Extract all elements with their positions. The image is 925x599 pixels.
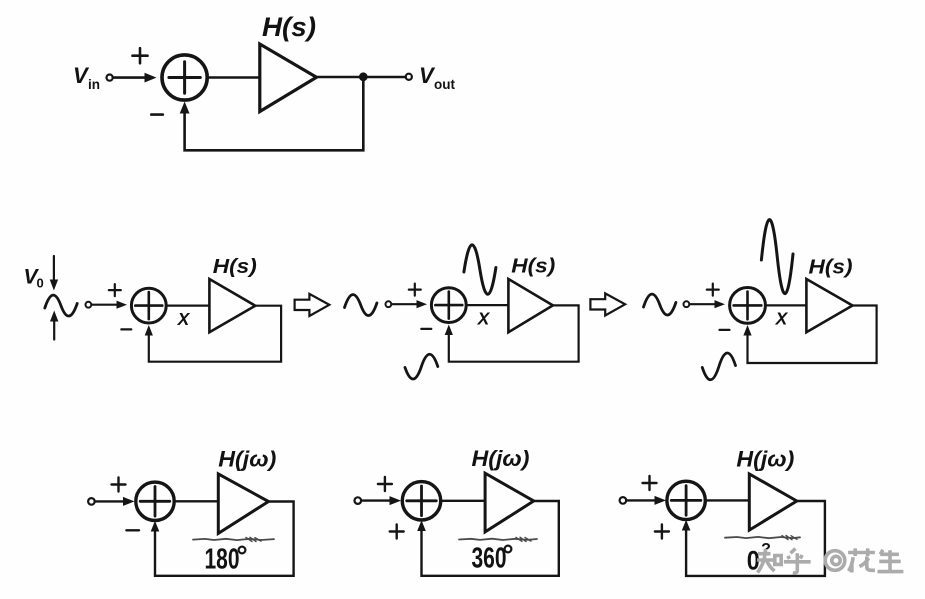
plus sign (C) [707,284,719,296]
plus sign (A) [109,284,121,296]
input terminal (B) [386,301,392,307]
minus sign (C) [720,329,730,331]
watermark glyph hua [848,548,875,572]
svg-text:X: X [775,309,789,329]
input sine wave (C) [644,294,676,315]
wire input arrow (F) [626,499,655,501]
svg-text:360: 360 [472,543,507,575]
wire amplifier output (top) [317,76,406,79]
wire input arrow (E) [361,499,390,501]
plus sign upper (F) [643,476,657,490]
amplitude arrow down (A) [53,256,55,281]
minus sign (A) [121,328,131,330]
svg-text:H(s): H(s) [809,257,853,279]
watermark glyph zhi [757,549,774,573]
svg-text:H(jω): H(jω) [736,447,794,472]
wire feedback loop (A) [149,306,281,362]
amplifier triangle (F) [749,474,797,530]
watermark smudge line (E) [459,539,537,540]
plus sign upper (E) [378,477,392,491]
input sine wave (A) [45,295,77,316]
wire input arrow (D) [95,500,124,502]
minus sign (B) [421,328,431,330]
minus sign at feedback input (top) [151,113,163,116]
wire summing to amplifier (A) [166,305,209,307]
arrowhead feedback into summing (E) [417,520,426,531]
arrowhead feedback into summing (top) [180,102,190,114]
plus sign lower (F) [655,525,669,539]
growing sine wave above (B) [464,245,496,294]
input terminal (A) [86,302,92,308]
wire input arrow (C) [690,303,716,305]
plus sign (B) [409,284,421,296]
wire summing to amplifier (C) [765,304,806,306]
plus sign (D) [112,478,126,492]
watermark zhihu text (gray strokes) [757,548,903,573]
label V0 [24,266,44,291]
plus sign lower (E) [390,525,404,539]
wire feedback loop (C) [748,306,877,364]
arrowhead feedback into summing (B) [445,325,453,336]
hollow arrow 1 (between A and B) [295,294,330,316]
wire summing to amplifier (B) [466,304,508,306]
plus sign at summing input (top) [133,48,148,63]
svg-text:X: X [477,309,491,329]
wire feedback loop (F) [686,501,825,576]
arrowhead feedback into summing (F) [682,520,691,531]
wire input arrow (A) [92,304,118,306]
wire summing to amplifier (D) [174,500,218,502]
summing junction S4 (C) [730,288,766,324]
label Vin [73,63,100,92]
wire summing to amplifier (top) [207,76,259,79]
input terminal (top) [107,75,113,81]
output terminal (top) [406,74,412,80]
summing junction S1 (top) [162,55,207,100]
svg-text:H(s): H(s) [262,12,316,42]
svg-text:H(jω): H(jω) [472,446,530,471]
hollow arrow 2 (between B and C) [590,293,625,315]
input sine wave (B) [345,295,377,316]
amplifier triangle (C) [806,279,852,332]
svg-text:H(s): H(s) [511,256,555,278]
svg-text:180: 180 [205,544,240,576]
minus sign (D) [126,529,139,531]
large sine wave above (C) [761,220,793,294]
arrowhead feedback into summing (D) [151,521,160,532]
wire feedback loop (top) [185,77,364,150]
summing junction S6 (E) [402,482,440,520]
watermark smudge line (D) [193,539,274,540]
wire input arrow (top) [113,76,146,79]
svg-text:X: X [177,309,191,329]
summing junction S3 (B) [431,288,466,323]
label Vout [419,63,455,92]
svg-text:in: in [88,77,100,92]
watermark glyph sheng [878,550,904,572]
amplifier triangle (D) [218,474,268,534]
feedback sine wave (C) [702,353,735,380]
feedback sine wave (B) [405,354,438,379]
amplifier triangle (E) [485,473,534,532]
amplitude arrow up (A) [53,316,55,340]
amplifier H(s) triangle (top) [260,44,317,112]
wire feedback loop (E) [422,501,559,576]
watermark glyph at [825,551,845,571]
summing junction S5 (D) [136,482,174,520]
watermark glyph hu [784,549,811,573]
arrowhead feedback into summing (C) [743,325,751,336]
input terminal (F) [620,497,627,504]
svg-text:H(jω): H(jω) [218,447,276,472]
amplifier triangle (A) [209,279,255,332]
wire summing to amplifier (E) [441,500,485,502]
input terminal (E) [355,497,362,504]
watermark smudge line (F) [725,537,800,538]
input terminal (C) [684,301,690,307]
wire input arrow (B) [392,303,418,305]
svg-text:out: out [434,77,455,92]
summing junction S2 (A) [131,288,166,323]
summing junction S7 (F) [667,481,705,519]
wire feedback loop (B) [449,305,579,361]
svg-text:H(s): H(s) [213,256,257,278]
wire summing to amplifier (F) [705,499,749,501]
wire feedback loop (D) [155,502,294,576]
input terminal (D) [88,498,95,505]
arrowhead feedback into summing (A) [145,325,153,336]
amplifier triangle (B) [508,279,553,332]
svg-text:0: 0 [37,276,44,291]
node junction dot (top) [359,72,368,81]
